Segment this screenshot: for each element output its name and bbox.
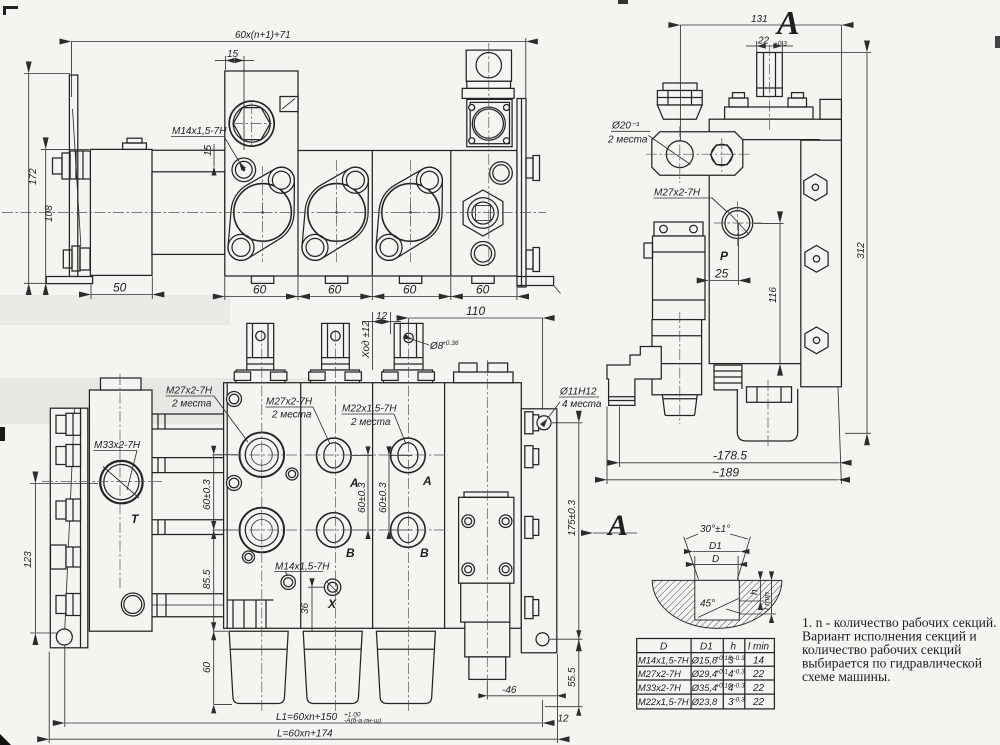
dimension 22: [746, 36, 793, 54]
valve section 1 body (tall): [225, 71, 517, 276]
relief valve hex cap: [657, 83, 702, 119]
end section vertical centerline: [488, 43, 490, 266]
svg-text:-А(б-а·пн-ш): -А(б-а·пн-ш): [344, 717, 381, 725]
cylinder top cap hex: [127, 138, 142, 143]
boot section 3: [376, 631, 435, 703]
spool stem side view: [757, 53, 783, 97]
dimension 123: [23, 484, 98, 634]
svg-text:2 места: 2 места: [271, 410, 312, 421]
scan artifact left edge blob: [0, 427, 5, 441]
svg-text:Ход ±12: Ход ±12: [361, 321, 372, 359]
section 1 screw b: [227, 476, 242, 491]
svg-text:L=60xn+174: L=60xn+174: [277, 729, 333, 740]
solenoid pilot box on end section: [466, 50, 511, 81]
cover bolt right: [788, 93, 807, 107]
section 2 port A: [317, 438, 352, 473]
dimension 116: [754, 223, 784, 363]
boot section 1: [229, 631, 288, 703]
svg-text:Ø35,4: Ø35,4: [691, 683, 717, 693]
dimension D1: [693, 541, 740, 552]
spool stem 2 rear: [322, 323, 350, 370]
svg-text:D1: D1: [700, 642, 713, 653]
svg-text:-178.5: -178.5: [713, 449, 747, 463]
section 3 port A: [391, 438, 426, 473]
dimension 60±0.3 section3: [378, 455, 412, 530]
svg-text:15: 15: [227, 49, 239, 60]
scan artifact bottom-left corner: [0, 734, 11, 745]
mounting plate side (right): [801, 140, 842, 387]
end block T rear: [89, 390, 152, 631]
section 1 port upper (M27): [239, 432, 284, 477]
end plate stud nut lower: [526, 248, 540, 272]
svg-text:P: P: [720, 249, 729, 263]
spool stem 1 rear: [247, 323, 274, 370]
end section top bolts rear: [454, 363, 513, 383]
svg-text:-0.3: -0.3: [734, 669, 746, 676]
dimension 60 section 3: [372, 296, 451, 298]
svg-text:60: 60: [328, 283, 342, 297]
bracket upper bolt M10: [53, 151, 91, 179]
cylinder top cap nut: [123, 143, 147, 149]
svg-text:2 места: 2 места: [171, 399, 212, 410]
section 1 screw c: [286, 468, 298, 480]
front view horizontal centerline: [2, 211, 546, 213]
svg-text:60±0.3: 60±0.3: [202, 479, 213, 510]
dimension 110: [409, 304, 543, 416]
dimension 131: [680, 14, 841, 141]
bore rectangle: [695, 580, 740, 620]
svg-text:12: 12: [376, 311, 388, 322]
rear bracket bend diagonal: [64, 408, 74, 638]
section boundary 4: [450, 151, 452, 277]
solenoid circle: [476, 52, 501, 77]
tie rod pair 1: [152, 414, 224, 429]
boot hex adapter 1: [227, 600, 273, 628]
svg-text:60: 60: [403, 283, 417, 297]
end block top cap: [101, 378, 142, 390]
svg-text:Ø15,8: Ø15,8: [691, 656, 718, 666]
svg-text:2 места: 2 места: [350, 417, 391, 428]
svg-text:30°±1°: 30°±1°: [700, 524, 730, 535]
dimension l min: [739, 580, 776, 614]
hex plug port on section 1: [229, 101, 274, 146]
rear bracket plate: [50, 408, 88, 648]
svg-text:85.5: 85.5: [202, 569, 213, 589]
label M14x1,5-7H front: [171, 126, 239, 162]
bracket foot plate: [46, 277, 92, 284]
svg-text:60: 60: [253, 283, 267, 297]
svg-text:175±0.3: 175±0.3: [567, 499, 578, 536]
svg-text:l min: l min: [748, 642, 770, 653]
svg-text:-0.3: -0.3: [734, 655, 746, 662]
subvalve screw 4: [499, 563, 512, 576]
main body side view: [709, 119, 841, 363]
washer stack under body: [714, 365, 742, 390]
svg-text:M33x2-7H: M33x2-7H: [94, 440, 141, 451]
dimension 85.5: [202, 530, 228, 631]
tie rod hex nut 1: [804, 174, 827, 201]
scan gray band over front view bottom: [0, 295, 230, 325]
bracket bolt stack 1: [56, 413, 81, 435]
svg-text:22: 22: [757, 36, 770, 47]
bottom tab section 4: [472, 276, 494, 283]
small dimension 15 at M14 port: [203, 144, 214, 167]
pilot flange screw 2: [504, 105, 510, 111]
cover bolt left: [729, 93, 748, 107]
hydraulic cylinder body: [90, 149, 152, 275]
stem 1 mount plate: [234, 370, 287, 383]
dimension 60 section 1: [225, 296, 298, 298]
top cover plate side: [725, 107, 813, 119]
stem 2 mount plate: [309, 370, 362, 383]
port M14 on section 1: [232, 158, 256, 182]
svg-text:116: 116: [768, 287, 779, 303]
bracket bend diagonal: [73, 109, 81, 246]
svg-text:50: 50: [113, 281, 127, 295]
svg-text:D: D: [660, 642, 667, 653]
square flange of pilot valve: [467, 99, 512, 146]
relief spring bowl: [737, 389, 797, 441]
tie rod pair 3: [152, 520, 224, 535]
dimension 172: [24, 74, 70, 284]
svg-text:A: A: [775, 5, 800, 42]
piston rod link: [152, 172, 225, 255]
svg-text:~189: ~189: [712, 466, 739, 480]
pilot flange screw 4: [504, 138, 510, 144]
svg-text:14: 14: [753, 656, 765, 667]
svg-text:B: B: [346, 546, 355, 560]
chamfer cone line right: [737, 537, 750, 580]
section boundary 3: [371, 151, 373, 277]
svg-text:25: 25: [714, 267, 729, 281]
svg-text:Ø20⁻¹: Ø20⁻¹: [611, 121, 640, 132]
subvalve screw 1: [462, 515, 475, 528]
svg-text:-0.3: -0.3: [734, 696, 746, 703]
svg-text:Ø11Н12: Ø11Н12: [559, 387, 597, 398]
dimension 60 section 4: [451, 296, 517, 298]
flange of working section 3: [376, 167, 442, 260]
svg-text:M27x2-7H: M27x2-7H: [266, 397, 313, 408]
pilot flange screw 3: [469, 138, 475, 144]
plate hole bottom: [536, 633, 549, 646]
subvalve screw 3: [462, 563, 475, 576]
spool stem 3 rear: [394, 323, 423, 370]
svg-text:h: h: [750, 589, 761, 595]
svg-text:B: B: [420, 546, 429, 560]
pilot valve body side: [653, 236, 706, 320]
section 1 port lower (M27): [239, 508, 284, 553]
scan gray band over rear view rails: [0, 378, 345, 424]
stem 3 mount plate: [382, 370, 435, 383]
side bracket stepped: [607, 347, 661, 406]
svg-text:131: 131: [751, 14, 768, 25]
dimension D: [695, 554, 738, 580]
svg-text:60±0.3: 60±0.3: [357, 482, 368, 513]
plate stud nut 2: [525, 446, 539, 468]
dimension L1=60xn+150: [65, 645, 543, 727]
rear view centerlines: [42, 330, 487, 712]
svg-text:Ø23,8: Ø23,8: [691, 697, 718, 707]
dimension ~189: [607, 388, 841, 485]
end foot plate: [517, 277, 554, 286]
pilot boot side: [662, 395, 697, 416]
dimension 60±0.3 section2: [352, 455, 372, 530]
svg-text:4 места: 4 места: [562, 399, 602, 410]
dimension -178.5: [619, 407, 839, 468]
dimension L=60xn+174: [49, 652, 557, 743]
svg-text:l min: l min: [762, 592, 772, 610]
svg-text:15: 15: [203, 144, 214, 156]
port M14 rear: [281, 575, 295, 589]
relief hex nut under body: [747, 387, 792, 403]
section 2 port B: [317, 513, 352, 548]
tie rod pair 2: [152, 458, 224, 473]
plate hole diam11 top: [537, 416, 551, 430]
hole diam20: [666, 141, 693, 168]
boot section 2: [303, 631, 362, 703]
small port below: [471, 242, 495, 266]
svg-text:60x(n+1)+71: 60x(n+1)+71: [235, 30, 291, 41]
flange of working section 2: [302, 167, 368, 260]
side view centerlines: [646, 45, 770, 447]
dimension 312: [783, 53, 871, 434]
cover seam line: [709, 139, 820, 141]
bracket lower bolt: [63, 246, 90, 271]
svg-text:M14x1,5-7H: M14x1,5-7H: [275, 562, 330, 573]
svg-text:+0.36: +0.36: [442, 340, 459, 347]
dimension 175±0.3: [550, 423, 583, 639]
dimension 12 stroke: [362, 311, 401, 370]
svg-text:312: 312: [856, 242, 867, 259]
section boundary 2: [297, 151, 299, 277]
svg-text:M27x2-7H: M27x2-7H: [166, 386, 213, 397]
hex plug centerline cross: [232, 123, 272, 125]
end block small hole lower: [121, 593, 144, 616]
bracket bolt stack 3: [56, 499, 81, 521]
svg-text:60: 60: [476, 283, 490, 297]
dimension 60±0.3 section1: [202, 455, 238, 530]
breather tab on section 1: [280, 97, 298, 112]
dimension 55.5: [545, 639, 583, 707]
solenoid terminal band: [467, 81, 511, 88]
section 1 vertical centerline: [262, 166, 264, 262]
svg-text:M22x1,5-7H: M22x1,5-7H: [342, 404, 397, 415]
leader through hole diam20: [649, 136, 691, 165]
hatched section half-disc: [652, 580, 782, 628]
pilot lower block side: [652, 320, 702, 395]
svg-text:+0.1: +0.1: [715, 669, 728, 676]
bottom tab section 2: [325, 276, 347, 283]
chamfer cone line left: [684, 537, 699, 580]
pilot flange screw 1: [469, 105, 475, 111]
port X: [324, 579, 340, 595]
scan artifact top edge mark: [618, 0, 628, 4]
svg-text:55.5: 55.5: [567, 667, 578, 687]
svg-text:60±0.3: 60±0.3: [378, 482, 389, 513]
bracket bolt stack 2: [56, 445, 81, 467]
svg-text:A: A: [422, 474, 432, 488]
bottom tab section 1: [251, 276, 273, 283]
plate stud nut 3: [525, 516, 539, 538]
dimension 36: [300, 587, 325, 631]
svg-text:D1: D1: [709, 541, 722, 552]
svg-text:M22x1,5-7H: M22x1,5-7H: [638, 697, 689, 707]
svg-text:2 места: 2 места: [607, 135, 648, 146]
svg-text:22: 22: [752, 697, 765, 708]
port P circle: [722, 208, 753, 239]
svg-text:123: 123: [23, 551, 34, 568]
svg-text:Ø29,4: Ø29,4: [691, 669, 717, 679]
plate stud nut 1: [525, 412, 539, 434]
svg-text:схеме машины.: схеме машины.: [802, 669, 890, 684]
svg-text:D: D: [712, 554, 719, 565]
inlet flange plate octagon: [652, 132, 743, 175]
scan artifact top-left corner mark: [3, 6, 18, 15]
svg-text:A: A: [606, 509, 628, 542]
svg-text:M14x1,5-7H: M14x1,5-7H: [172, 126, 227, 137]
svg-text:172: 172: [28, 168, 39, 185]
svg-text:M14x1,5-7H: M14x1,5-7H: [638, 656, 689, 666]
bottom tab section 3: [399, 276, 421, 283]
tie rod hex nut 2: [805, 246, 828, 273]
svg-text:M33x2-7H: M33x2-7H: [638, 683, 681, 693]
dimension 15 top: [215, 49, 254, 150]
tie rod hex 4: [152, 594, 224, 617]
dimension -46: [487, 681, 557, 700]
svg-text:h: h: [731, 642, 737, 653]
plate stud nut 4: [525, 597, 539, 619]
dimension h: [739, 580, 764, 601]
svg-text:45°: 45°: [700, 599, 715, 610]
notes paragraph: [802, 615, 997, 684]
chamfer 45 line: [698, 599, 739, 618]
dimension 60 section 2: [298, 296, 372, 298]
end section rear lower subvalve: [459, 497, 514, 583]
port T circle: [100, 461, 142, 503]
svg-text:22: 22: [752, 683, 765, 694]
bracket bolt stack 4 (large): [51, 545, 81, 569]
end plate strip: [517, 99, 526, 288]
scan artifact right edge mark: [995, 36, 1000, 48]
section 1 screw d: [243, 551, 255, 563]
svg-text:-46: -46: [502, 685, 517, 696]
dimension 60x(n+1)+71: [72, 30, 526, 99]
svg-text:108: 108: [44, 205, 55, 222]
solenoid neck with ears: [462, 88, 514, 98]
pilot valve bore circle: [472, 107, 505, 140]
rear mount plate right: [521, 409, 557, 653]
hex plug on flange plate: [711, 145, 734, 165]
bracket hole: [56, 629, 72, 645]
svg-text:22: 22: [752, 669, 765, 680]
section 1 screw a: [227, 392, 242, 407]
sections body rear: [224, 383, 522, 629]
small port above: [490, 162, 513, 185]
dimension 25: [709, 223, 739, 285]
pilot valve cap side: [654, 222, 703, 236]
svg-text:60: 60: [202, 661, 213, 673]
extension lines for 60 dims: [225, 277, 517, 300]
svg-text:12: 12: [558, 714, 570, 725]
svg-text:110: 110: [466, 304, 485, 318]
svg-text:+0.3: +0.3: [774, 41, 787, 48]
subvalve bowl: [465, 622, 510, 657]
section 3 vertical centerline: [410, 160, 412, 262]
rod upper guide line: [152, 149, 225, 151]
tie rod hex nut 3: [805, 327, 828, 354]
subvalve adapter: [461, 583, 510, 622]
section 3 port B: [391, 513, 426, 548]
svg-text:L1=60xn+150: L1=60xn+150: [276, 712, 338, 723]
dimension 50: [91, 277, 152, 300]
flange of working section 1: [228, 167, 294, 260]
svg-text:M27x2-7H: M27x2-7H: [638, 669, 681, 679]
subvalve cap: [469, 657, 506, 680]
dimension 60 bottom: [202, 631, 232, 704]
pilot connector tab: [644, 243, 653, 258]
dimension 108: [41, 149, 89, 283]
svg-text:M27x2-7H: M27x2-7H: [654, 188, 701, 199]
main port hex fitting on end section: [463, 190, 503, 236]
mounting bracket vertical strip: [69, 75, 77, 277]
mounting plate tab top right: [820, 99, 841, 119]
svg-text:-0.3: -0.3: [734, 682, 746, 689]
end plate stud nut upper: [526, 156, 540, 181]
subvalve screw 2: [499, 515, 512, 528]
section 2 vertical centerline: [336, 160, 338, 262]
svg-text:36: 36: [300, 602, 311, 614]
bracket bolt stack 5: [56, 594, 81, 616]
